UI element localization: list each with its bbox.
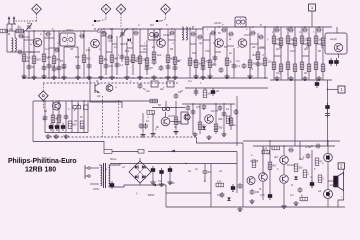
junction bbox=[23, 30, 24, 31]
wire link bbox=[288, 43, 295, 45]
wire bbox=[192, 104, 194, 134]
wire bbox=[236, 152, 238, 194]
dashed wire module boundary bbox=[102, 96, 104, 137]
junction bbox=[105, 77, 106, 78]
wire bbox=[327, 80, 329, 146]
capacitor capacitor C79 bbox=[250, 31, 256, 36]
junction bbox=[264, 26, 265, 27]
wire bbox=[269, 141, 271, 192]
wire top bus segment 1 bbox=[5, 30, 98, 32]
svg-text:k3: k3 bbox=[152, 45, 155, 49]
wire between fuses bbox=[112, 151, 138, 153]
ground bbox=[224, 74, 229, 79]
svg-text:40: 40 bbox=[150, 66, 153, 70]
wire bbox=[204, 175, 206, 182]
capacitor capacitor C11 bbox=[115, 62, 120, 68]
wire bbox=[204, 164, 206, 169]
test point TP5 bbox=[39, 91, 49, 101]
transistor Q4 bbox=[95, 84, 100, 94]
capacitor capacitor C23 bbox=[219, 67, 224, 73]
wire bbox=[58, 101, 60, 133]
junction bbox=[83, 100, 84, 101]
transistor Q6 OC75 bbox=[238, 39, 247, 48]
wire bbox=[283, 146, 285, 155]
wire bbox=[204, 88, 206, 90]
capacitor capacitor C21 bbox=[232, 63, 237, 69]
svg-text:10n: 10n bbox=[109, 64, 114, 68]
dashed wire TP2 bbox=[105, 14, 107, 19]
resistor resistor R35 bbox=[279, 64, 283, 72]
wire link bbox=[64, 46, 78, 48]
resistor resistor R38 bbox=[300, 62, 304, 70]
filter block Z2 bbox=[167, 81, 174, 87]
electrolytic capacitor capacitor C34 bbox=[329, 58, 333, 66]
wire bbox=[327, 199, 329, 207]
wire link bbox=[101, 35, 106, 37]
resistor resistor R19 bbox=[201, 58, 205, 66]
electrolytic capacitor capacitor C29 bbox=[211, 88, 215, 96]
wire bbox=[257, 33, 259, 78]
ground bbox=[249, 199, 254, 204]
wire lower left bbox=[7, 51, 40, 53]
wire bbox=[327, 162, 329, 189]
fuse F1 bbox=[104, 150, 112, 154]
svg-text:25: 25 bbox=[60, 59, 63, 63]
capacitor capacitor C26 bbox=[221, 28, 227, 33]
diode D3 bbox=[135, 165, 138, 169]
junction bbox=[58, 77, 59, 78]
ground bbox=[21, 74, 26, 79]
resistor resistor R29 bbox=[293, 38, 297, 46]
svg-text:0,1: 0,1 bbox=[45, 47, 49, 51]
svg-text:r: r bbox=[341, 195, 342, 199]
ground bbox=[281, 204, 286, 209]
svg-text:0,1: 0,1 bbox=[120, 63, 124, 67]
resistor resistor R8 bbox=[99, 56, 103, 64]
wire bbox=[169, 174, 171, 180]
wire bus to AF stage bbox=[88, 100, 158, 102]
resistor resistor R50 bbox=[214, 124, 218, 132]
svg-text:25: 25 bbox=[74, 119, 77, 123]
svg-text:10: 10 bbox=[146, 119, 149, 123]
test point TP1 bbox=[32, 4, 42, 14]
wire bbox=[83, 101, 85, 133]
resistor resistor R34 bbox=[272, 62, 276, 70]
wire link bbox=[258, 47, 265, 49]
resistor resistor R24 bbox=[256, 52, 260, 60]
svg-text:w4: w4 bbox=[146, 89, 150, 93]
junction bbox=[132, 28, 133, 29]
junction bbox=[283, 145, 284, 146]
svg-text:220V: 220V bbox=[93, 187, 99, 191]
potentiometer P2 tone bbox=[73, 104, 81, 111]
junction bbox=[43, 30, 44, 31]
wire bbox=[343, 169, 345, 176]
ground bbox=[63, 134, 68, 139]
wire bridge top bbox=[139, 158, 141, 161]
wire bridge bottom bbox=[139, 183, 141, 185]
svg-text:50: 50 bbox=[318, 49, 321, 53]
transistor Q13 AC126 bbox=[280, 175, 289, 184]
wire bbox=[161, 176, 163, 182]
svg-text:10n: 10n bbox=[276, 71, 281, 75]
wire to X2 bbox=[328, 89, 339, 91]
wire bbox=[126, 42, 128, 75]
capacitor capacitor C6 bbox=[87, 63, 92, 69]
capacitor capacitor C65 bbox=[315, 144, 321, 149]
capacitor capacitor C16 bbox=[166, 64, 171, 70]
dashed wire block boundary bbox=[50, 136, 197, 138]
svg-text:8k2: 8k2 bbox=[125, 49, 130, 53]
svg-text:5n: 5n bbox=[177, 59, 180, 63]
svg-text:c2: c2 bbox=[219, 169, 222, 173]
svg-text:12: 12 bbox=[110, 27, 113, 31]
resistor resistor R17 bbox=[188, 58, 192, 66]
wire bbox=[338, 54, 340, 58]
diode D1 OA79 bbox=[127, 38, 130, 42]
svg-text:100: 100 bbox=[290, 49, 295, 53]
capacitor capacitor C51 bbox=[234, 109, 239, 115]
svg-text:12k: 12k bbox=[86, 48, 91, 52]
wire bbox=[133, 184, 166, 186]
resistor resistor R6 bbox=[52, 56, 56, 64]
switch contact S1b bbox=[156, 20, 162, 22]
resistor resistor R37 bbox=[293, 64, 297, 72]
wire link bbox=[24, 39, 34, 41]
svg-text:0,1: 0,1 bbox=[58, 114, 62, 118]
resistor resistor R47 bbox=[147, 111, 155, 115]
svg-text:0,1: 0,1 bbox=[114, 45, 118, 49]
svg-text:4k7: 4k7 bbox=[114, 57, 119, 61]
bridge rectifier GR1 bbox=[129, 161, 151, 183]
capacitor capacitor C3 bbox=[57, 65, 62, 71]
dashed wire TP5 up bbox=[42, 84, 44, 91]
svg-text:100: 100 bbox=[170, 181, 175, 185]
capacitor capacitor C47 bbox=[222, 111, 227, 117]
junction bbox=[215, 103, 216, 104]
svg-text:earph: earph bbox=[330, 37, 337, 41]
wire bbox=[63, 47, 65, 78]
coil T3 primary bbox=[101, 165, 102, 186]
wire bbox=[264, 27, 266, 78]
transistor Q1 AF116 bbox=[33, 38, 42, 47]
junction bbox=[311, 145, 312, 146]
resistor resistor R32 bbox=[314, 36, 318, 44]
svg-text:OC75: OC75 bbox=[211, 109, 219, 113]
resistor resistor R55 bbox=[268, 162, 272, 170]
wire bbox=[105, 33, 107, 75]
svg-text:4k7: 4k7 bbox=[272, 164, 277, 168]
svg-text:C450: C450 bbox=[217, 193, 224, 197]
junction bbox=[241, 26, 242, 27]
ground bbox=[75, 75, 80, 80]
capacitor capacitor C2 bbox=[47, 63, 52, 69]
capacitor capacitor C55 bbox=[203, 169, 208, 175]
svg-text:a5: a5 bbox=[216, 89, 219, 93]
svg-text:AF117: AF117 bbox=[214, 21, 222, 25]
wire bbox=[166, 192, 211, 194]
variable capacitor variable capacitor C1 bbox=[26, 24, 32, 31]
junction bbox=[290, 26, 291, 27]
filter block Z1 bbox=[151, 81, 158, 87]
transistor Q17 bbox=[106, 85, 113, 92]
svg-text:d4: d4 bbox=[70, 47, 73, 51]
resistor resistor R31 bbox=[307, 38, 311, 46]
arrow marker bbox=[171, 150, 175, 153]
wire bbox=[226, 27, 228, 78]
junction bbox=[88, 77, 89, 78]
ground bbox=[159, 182, 164, 187]
svg-text:10: 10 bbox=[226, 107, 229, 111]
junction bbox=[33, 30, 34, 31]
wire bbox=[58, 31, 60, 78]
wire bbox=[121, 29, 123, 62]
resistor resistor R40 bbox=[314, 62, 318, 70]
test point TP2 bbox=[101, 4, 111, 14]
wire bbox=[153, 29, 155, 60]
resistor resistor R44 bbox=[68, 121, 72, 129]
wire link bbox=[112, 43, 117, 45]
capacitor capacitor C59 bbox=[250, 189, 255, 195]
junction bbox=[276, 26, 277, 27]
mains plug P1 bbox=[85, 165, 90, 179]
wire link bbox=[49, 47, 59, 49]
wire bbox=[209, 33, 211, 78]
svg-text:120: 120 bbox=[267, 60, 272, 64]
svg-text:120: 120 bbox=[217, 180, 222, 184]
svg-text:g2: g2 bbox=[125, 27, 128, 31]
jack box J1 bbox=[325, 33, 347, 54]
svg-text:b2: b2 bbox=[48, 55, 51, 59]
svg-text:390: 390 bbox=[218, 117, 223, 121]
junction bbox=[63, 30, 64, 31]
junction bbox=[269, 140, 270, 141]
wire bbox=[175, 101, 177, 129]
capacitor capacitor C7 bbox=[42, 65, 47, 71]
electrolytic capacitor capacitor C37 bbox=[325, 103, 329, 111]
wire bbox=[139, 29, 141, 75]
capacitor capacitor C38 bbox=[325, 112, 330, 118]
svg-text:0,5W: 0,5W bbox=[305, 145, 312, 149]
capacitor capacitor C63 bbox=[288, 148, 294, 153]
wire bbox=[294, 27, 296, 80]
capacitor capacitor C66 bbox=[238, 183, 243, 189]
junction bbox=[103, 28, 104, 29]
transistor Q3 AF117 bbox=[157, 39, 166, 48]
svg-text:AC128: AC128 bbox=[330, 183, 339, 187]
svg-text:x2: x2 bbox=[122, 165, 125, 169]
resistor resistor R54 bbox=[262, 150, 270, 154]
wire link bbox=[106, 51, 112, 53]
wire bbox=[202, 27, 204, 78]
ground bbox=[167, 180, 172, 185]
resistor resistor R13 bbox=[166, 55, 170, 63]
resistor resistor R39 bbox=[307, 64, 311, 72]
wire output top bbox=[243, 140, 340, 142]
transistor Q16 bbox=[184, 114, 190, 120]
wire bbox=[109, 164, 121, 166]
wire bbox=[88, 47, 90, 78]
dashed wire TP1 to antenna bbox=[13, 20, 37, 22]
resistor resistor R60 bbox=[300, 197, 308, 201]
wire block left edge bbox=[32, 101, 34, 142]
junction bbox=[89, 77, 90, 78]
transistor Q18 OC71 bbox=[53, 102, 61, 110]
capacitor capacitor C75 bbox=[169, 31, 175, 36]
wire bbox=[44, 101, 46, 133]
electrolytic capacitor capacitor C35 bbox=[334, 58, 338, 66]
svg-text:470: 470 bbox=[108, 39, 113, 43]
capacitor capacitor C69 bbox=[54, 48, 60, 53]
coupling dots bbox=[162, 107, 169, 110]
svg-text:AF: AF bbox=[97, 94, 101, 98]
wire bbox=[99, 164, 101, 166]
wire bbox=[142, 113, 144, 132]
svg-text:u3: u3 bbox=[214, 127, 217, 131]
wire bbox=[336, 27, 338, 33]
capacitor capacitor C10 bbox=[104, 63, 109, 69]
wire speaker bbox=[328, 180, 334, 182]
junction bbox=[209, 77, 210, 78]
wire bbox=[167, 29, 169, 75]
resistor resistor R61 bbox=[272, 146, 280, 150]
wire top bus segment 3 bbox=[203, 27, 332, 29]
capacitor capacitor C80 bbox=[258, 35, 264, 40]
dashed wire AGC bus bbox=[43, 82, 178, 84]
transistor Q2 AF116 bbox=[91, 39, 100, 48]
capacitor capacitor C19 bbox=[174, 93, 179, 99]
svg-text:m3: m3 bbox=[81, 125, 85, 129]
capacitor capacitor C39 bbox=[43, 115, 48, 121]
ground bbox=[109, 75, 114, 80]
electrolytic capacitor capacitor C53 bbox=[159, 168, 163, 176]
wire bbox=[43, 31, 45, 78]
ground bbox=[45, 134, 50, 139]
wire link bbox=[250, 43, 258, 45]
wire antenna tap bbox=[11, 24, 13, 31]
svg-text:68: 68 bbox=[170, 47, 173, 51]
wire to bottom bus bbox=[165, 185, 167, 207]
ground bbox=[173, 130, 178, 135]
diode D4 bbox=[142, 165, 145, 169]
resistor resistor R51 bbox=[229, 118, 233, 126]
ground bbox=[193, 74, 198, 79]
diode D8 bbox=[294, 176, 298, 179]
svg-text:0,1: 0,1 bbox=[236, 59, 240, 63]
svg-text:AF116: AF116 bbox=[22, 35, 30, 39]
svg-text:4k7: 4k7 bbox=[274, 155, 279, 159]
wire link bbox=[302, 55, 309, 57]
wire bbox=[148, 151, 237, 153]
resistor resistor R4 bbox=[32, 56, 36, 64]
junction bbox=[53, 30, 54, 31]
svg-text:n2: n2 bbox=[318, 189, 321, 193]
wire bbox=[223, 104, 225, 134]
resistor resistor R21 bbox=[225, 58, 229, 66]
svg-text:0,1: 0,1 bbox=[237, 64, 241, 68]
capacitor capacitor C74 bbox=[153, 34, 159, 39]
diode D2 bbox=[202, 126, 206, 129]
ground bbox=[124, 75, 129, 80]
svg-text:j4: j4 bbox=[290, 183, 294, 187]
resistor resistor R41 bbox=[321, 64, 325, 72]
resistor resistor R16 bbox=[145, 58, 149, 66]
wire ground bus bbox=[22, 77, 268, 79]
wire link bbox=[274, 55, 281, 57]
capacitor capacitor C18 bbox=[138, 83, 143, 89]
svg-text:50: 50 bbox=[62, 125, 65, 129]
electrolytic capacitor capacitor C36 bbox=[315, 80, 319, 88]
svg-text:0,1: 0,1 bbox=[290, 193, 294, 197]
svg-text:2k2: 2k2 bbox=[157, 53, 162, 57]
junction bbox=[327, 89, 328, 90]
ground bbox=[247, 74, 252, 79]
svg-text:470: 470 bbox=[205, 49, 210, 53]
svg-text:AF116: AF116 bbox=[97, 30, 105, 34]
capacitor capacitor C32 bbox=[302, 28, 308, 33]
capacitor capacitor C48 bbox=[186, 105, 191, 111]
junction bbox=[226, 77, 227, 78]
svg-text:OC75: OC75 bbox=[244, 33, 252, 37]
wire link bbox=[316, 43, 323, 45]
capacitor capacitor C73 bbox=[133, 31, 139, 36]
wire block top bbox=[33, 100, 88, 102]
wire bbox=[48, 31, 50, 78]
test point TP3 bbox=[116, 4, 126, 14]
svg-text:560: 560 bbox=[72, 123, 77, 127]
wire bbox=[199, 104, 201, 134]
transistor Q14 AC128 bbox=[324, 153, 333, 162]
wire link bbox=[140, 45, 147, 47]
wire link bbox=[215, 51, 221, 53]
diode D7 bbox=[227, 197, 231, 200]
wire bbox=[77, 101, 79, 133]
ground bbox=[150, 180, 155, 185]
resistor resistor R56 bbox=[294, 164, 298, 172]
wire bbox=[77, 47, 79, 78]
capacitor capacitor C77 bbox=[197, 35, 203, 40]
wire bbox=[273, 27, 275, 80]
wire bbox=[23, 31, 25, 78]
wire to driver bbox=[170, 121, 181, 123]
junction bbox=[327, 140, 328, 141]
svg-text:25: 25 bbox=[262, 171, 265, 175]
wire bbox=[132, 29, 134, 75]
wire block top bbox=[182, 103, 235, 105]
wire bbox=[111, 29, 113, 75]
wire L2 top bbox=[14, 31, 16, 38]
resistor resistor R9 bbox=[110, 55, 114, 63]
svg-text:25: 25 bbox=[304, 71, 307, 75]
switch contact S1a bbox=[94, 20, 100, 22]
electrolytic capacitor capacitor C60 bbox=[310, 180, 314, 188]
resistor resistor R43 bbox=[57, 115, 61, 123]
junction bbox=[195, 77, 196, 78]
capacitor capacitor C49 bbox=[202, 104, 207, 110]
wire bbox=[299, 141, 301, 160]
svg-text:18k: 18k bbox=[212, 63, 217, 67]
driver transformer T2 bbox=[181, 112, 188, 124]
junction bbox=[185, 163, 186, 164]
capacitor capacitor C25 bbox=[242, 63, 247, 69]
wire bbox=[214, 27, 216, 62]
dashed wire TP5 down bbox=[42, 101, 44, 108]
junction bbox=[171, 28, 172, 29]
junction bbox=[58, 100, 59, 101]
capacitor capacitor C30 bbox=[274, 28, 280, 33]
wire mains top bbox=[90, 167, 99, 169]
svg-text:a3: a3 bbox=[279, 45, 282, 49]
